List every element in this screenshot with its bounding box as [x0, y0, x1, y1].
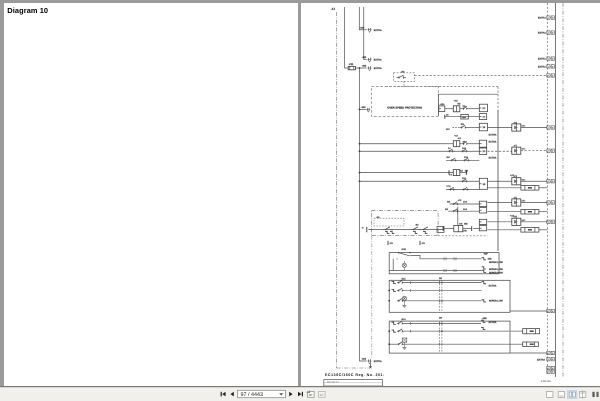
- toolbar previous-view icon: [308, 392, 315, 398]
- diode -V1 row202.5: [488, 202, 512, 204]
- resistor pack row211.7: [488, 211, 521, 213]
- connector rail -V7: [547, 149, 550, 152]
- block wiper box3: [389, 321, 510, 353]
- contact row y151: [448, 150, 450, 152]
- wire vertical feed V1 to fuse F11: [345, 7, 349, 68]
- row3 box3: [397, 343, 399, 345]
- connector rail y368: [547, 366, 550, 369]
- pin box row6: [479, 201, 486, 206]
- pin box row1: [479, 104, 487, 112]
- toolbar single page icon: [547, 392, 553, 398]
- wire row y151.25 from bus: [360, 150, 480, 152]
- T glyph bottom row b: [419, 241, 421, 245]
- segbox row341: [523, 342, 539, 346]
- component small box row229: [437, 226, 444, 232]
- toolbar partial icon right edge: [592, 392, 594, 397]
- wire row y108.7 relay K5: [445, 108, 454, 110]
- wire row y143.75 from bus: [360, 143, 447, 145]
- toolbar continuous icon: [558, 392, 564, 398]
- wire bus x498 down to wiper unit: [497, 110, 499, 251]
- wire main vertical bus V4: [360, 68, 367, 361]
- toolbar nav prev button: [230, 392, 233, 397]
- toolbar nav next button: [289, 392, 292, 397]
- wire fuse output to connector -322: [355, 67, 366, 69]
- row3 box2: [397, 300, 399, 302]
- connector rail -V2: [547, 126, 550, 129]
- toolbar nav first-page button: [222, 392, 225, 397]
- left page (Diagram 10 blank page): [4, 3, 298, 386]
- connector rail -V1: [547, 201, 550, 204]
- right page (schematic): [301, 3, 600, 386]
- connector rail -V5: [547, 220, 550, 223]
- ground glyph box2: [403, 301, 405, 306]
- wire row y181.25 from bus: [360, 180, 480, 182]
- pin box row3: [479, 123, 487, 131]
- row2 box2 gray thick: [392, 289, 396, 291]
- status toolbar: [0, 387, 600, 401]
- connector rail y311: [547, 309, 550, 312]
- resistor pack row229.8: [488, 229, 521, 231]
- T glyph bottom row a: [387, 241, 389, 245]
- connector -322 EXTRA: [368, 67, 370, 70]
- svg-text:97 / 4443: 97 / 4443: [241, 392, 263, 398]
- wire: right dashed rail: [546, 3, 548, 374]
- switch -S2 contacts: [383, 229, 385, 231]
- wire: right solid rail: [555, 3, 557, 377]
- pin box row8: [479, 219, 486, 224]
- dashed bottom border: [337, 367, 369, 369]
- segbox row331: [523, 329, 540, 334]
- pin box row2: [479, 114, 486, 120]
- dash-dot vertical x371.8 lower: [371, 236, 373, 359]
- switch in box1: [398, 252, 399, 253]
- pin box row K1 output: [479, 140, 486, 147]
- connector -432 EXTRA: [368, 58, 370, 61]
- connector rail y353: [547, 351, 550, 354]
- square glyph box3: [402, 338, 407, 342]
- pins and switch box2 row1: [392, 281, 396, 283]
- wire -332 drop down: [369, 363, 371, 367]
- wire row y229.6 main: [368, 229, 443, 231]
- block wiper box2: [389, 280, 510, 312]
- toolbar next-view icon: [319, 392, 326, 398]
- wire vertical V2 top: [359, 7, 363, 30]
- block dash-dot box switch row: [371, 210, 438, 235]
- resistor pack row187.8: [488, 187, 521, 189]
- lamp glyph box1: [402, 263, 406, 267]
- wire dashed horizontal y87: [386, 86, 498, 88]
- connector -328: [366, 108, 368, 111]
- wires box1: [410, 255, 481, 258]
- contact rows K2 y204 y211: [449, 203, 479, 205]
- wire: dash-dot harness border line -42 (left): [336, 12, 338, 368]
- lamp glyph box2: [402, 296, 406, 300]
- row 270 box1: [389, 270, 481, 272]
- contact row y181: [461, 180, 463, 182]
- title block box: [324, 380, 383, 386]
- wire row y172.5 from bus: [360, 172, 454, 174]
- x junction marker bottom: [369, 366, 371, 368]
- connector rail top 5: [547, 74, 550, 77]
- diode -V3 row181: [488, 180, 512, 182]
- wire dashed from -S6 to rail: [415, 74, 547, 76]
- block wiper relay box1: [389, 253, 499, 274]
- wire: right dash-dot border rail: [562, 3, 564, 377]
- diode -V7 row150.5 dashed wire: [488, 150, 512, 152]
- wire dashed -S6 drop: [403, 81, 405, 86]
- wire box3 bottom to rail: [510, 352, 547, 354]
- ground below square box3: [404, 342, 406, 347]
- pin box row5 tall: [479, 178, 487, 189]
- dashed verticals box3: [438, 321, 440, 353]
- pin box row4: [479, 148, 486, 154]
- dashed verticals in box2: [438, 280, 440, 312]
- connector rail -V3: [547, 180, 550, 183]
- contact row y189.5: [446, 189, 479, 191]
- connector -42A: [439, 106, 445, 112]
- page bottom shadow: [0, 386, 600, 387]
- wire row y116.7: [445, 116, 480, 118]
- connector -330 EXTRA: [368, 28, 370, 31]
- toolbar facing continuous icon: [579, 392, 585, 398]
- pin box row7: [479, 208, 486, 213]
- wire -328 to over speed box: [360, 108, 366, 110]
- block over speed protection dashed box: [372, 87, 439, 117]
- toolbar page field: [238, 390, 286, 397]
- row1 box3: [392, 322, 396, 324]
- toolbar facing pages icon selected: [568, 391, 577, 399]
- crossing ticks rows 258-270: [443, 257, 445, 260]
- pin box row9: [479, 226, 486, 231]
- bent pins box1: [482, 258, 486, 260]
- wire -332 bottom connector: [368, 360, 370, 363]
- wire dashed vertical x498: [497, 87, 499, 110]
- diode -V2 row127: [488, 127, 512, 129]
- block relay unit top edge: [439, 94, 499, 116]
- wire vertical bus V3: [364, 7, 367, 60]
- crossing ticks dashed verticals box2 box3: [438, 281, 440, 284]
- diode -V5 row221.5: [488, 221, 512, 223]
- connector rail y371.8: [547, 370, 550, 373]
- row2 box3 gray thick: [392, 330, 396, 332]
- toolbar nav last button: [298, 392, 301, 397]
- wire branch -330: [364, 29, 367, 31]
- contact row y160: [446, 159, 479, 161]
- connector T left: [366, 227, 368, 232]
- dashed hline y235.8: [438, 235, 487, 237]
- wire box2 to rail: [510, 310, 547, 312]
- pins right box2: [482, 282, 486, 284]
